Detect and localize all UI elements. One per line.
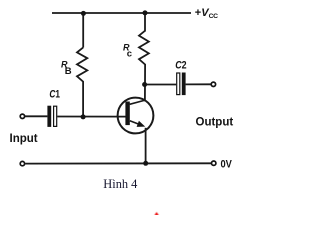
svg-text:C2: C2 <box>175 59 186 71</box>
svg-text:Input: Input <box>10 133 38 145</box>
svg-text:Output: Output <box>196 116 234 128</box>
svg-text:+VCC: +VCC <box>195 7 218 20</box>
svg-text:0V: 0V <box>221 158 233 170</box>
svg-text:C1: C1 <box>49 89 60 101</box>
svg-text:B: B <box>65 66 72 77</box>
svg-text:c: c <box>127 48 132 59</box>
svg-text:Hình 4: Hình 4 <box>103 177 137 191</box>
